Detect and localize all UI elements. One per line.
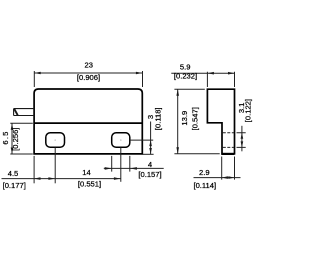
svg-text:[0.177]: [0.177]	[3, 181, 26, 190]
svg-text:[0.906]: [0.906]	[77, 73, 100, 82]
svg-text:[0.157]: [0.157]	[138, 170, 161, 179]
svg-text:[0.551]: [0.551]	[78, 180, 101, 189]
svg-text:[0.256]: [0.256]	[11, 128, 20, 151]
svg-text:6.5: 6.5	[1, 130, 10, 144]
svg-text:23: 23	[84, 60, 92, 69]
svg-text:14: 14	[82, 168, 90, 177]
svg-text:13.9: 13.9	[180, 111, 189, 126]
svg-text:[0.122]: [0.122]	[243, 99, 252, 122]
svg-text:4: 4	[148, 160, 152, 169]
svg-text:[0.232]: [0.232]	[174, 71, 197, 80]
svg-text:[0.118]: [0.118]	[154, 107, 163, 130]
svg-text:2.9: 2.9	[199, 168, 210, 177]
svg-text:[0.547]: [0.547]	[191, 107, 200, 130]
svg-text:4.5: 4.5	[8, 169, 19, 178]
svg-text:[0.114]: [0.114]	[193, 181, 216, 190]
svg-text:5.9: 5.9	[180, 63, 191, 72]
